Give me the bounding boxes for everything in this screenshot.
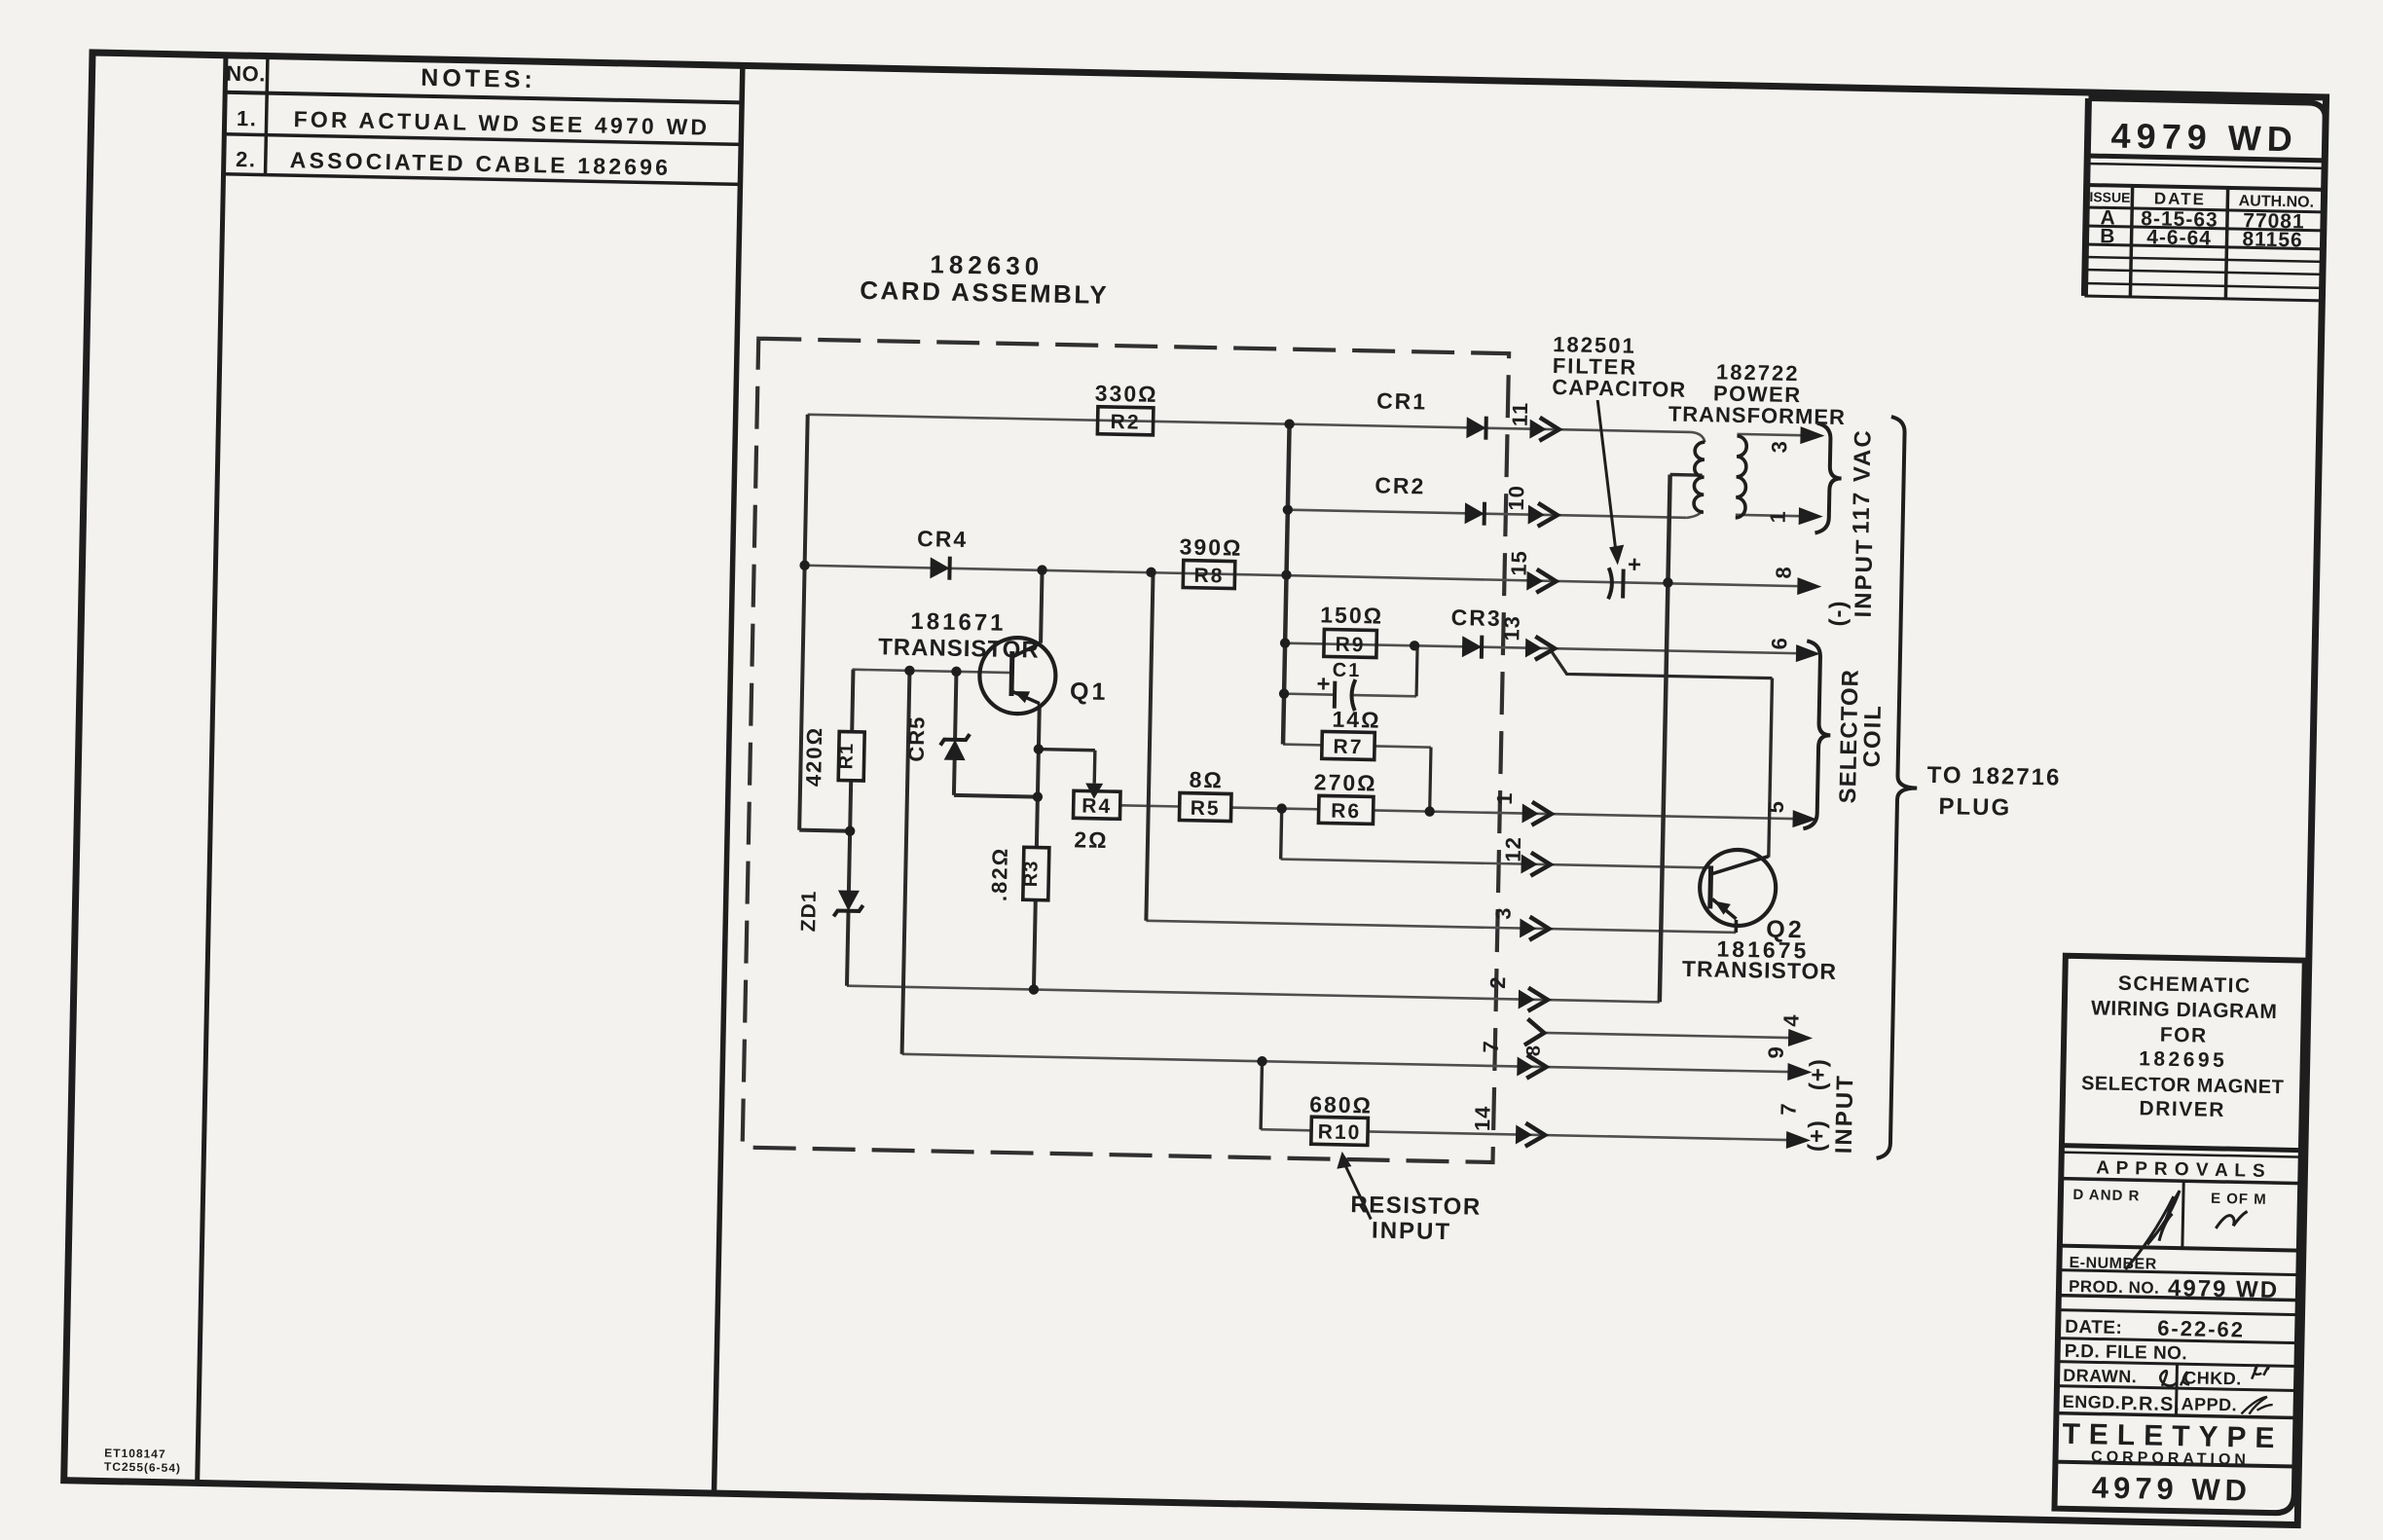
transistor Q1 181671: [979, 637, 1057, 715]
wire pin7 row to arrow9: [902, 1054, 1789, 1072]
svg-text:ENGD.: ENGD.: [2062, 1392, 2120, 1412]
svg-text:3: 3: [1767, 440, 1791, 454]
power transformer primary winding: [1694, 442, 1705, 512]
svg-text:14: 14: [1470, 1105, 1495, 1131]
card pin 1 chevron: [1521, 804, 1538, 824]
svg-text:4: 4: [1778, 1013, 1803, 1027]
svg-text:WIRING DIAGRAM: WIRING DIAGRAM: [2091, 997, 2278, 1023]
card pin 15 chevron: [1526, 571, 1543, 591]
plug arrow 8: [1797, 577, 1821, 595]
svg-text:15: 15: [1507, 550, 1532, 576]
wire D1 to pin2 row: [847, 911, 849, 986]
svg-text:R5: R5: [1191, 797, 1221, 821]
wire Q1 collector riser: [1041, 570, 1043, 643]
title block row lines: [2062, 1146, 2301, 1151]
wire pin11 row R2 CR1: [808, 415, 1692, 432]
svg-text:11: 11: [1508, 402, 1533, 427]
wire pin3 row to Q2 emitter: [1146, 921, 1736, 933]
svg-text:INPUT: INPUT: [1372, 1218, 1452, 1246]
wire minus rail vertical B: [1660, 475, 1670, 1003]
svg-text:2Ω: 2Ω: [1074, 826, 1109, 853]
svg-text:4979 WD: 4979 WD: [2110, 115, 2298, 159]
plug arrow 4: [1788, 1029, 1813, 1046]
svg-text:+: +: [1316, 671, 1332, 697]
wire base rail down to pin7 row: [902, 671, 910, 1054]
plug arrow 7: [1786, 1131, 1811, 1149]
svg-text:10: 10: [1504, 485, 1529, 511]
plug arrow 6: [1796, 644, 1820, 662]
svg-text:+: +: [1628, 552, 1643, 578]
wire R7 row: [1283, 743, 1322, 746]
svg-text:14Ω: 14Ω: [1332, 707, 1381, 733]
card pin 2 chevron: [1519, 989, 1535, 1008]
svg-text:D AND R: D AND R: [2072, 1187, 2140, 1204]
svg-text:(-): (-): [1825, 600, 1852, 627]
diode CR1: [1466, 417, 1485, 438]
svg-text:E-NUMBER: E-NUMBER: [2069, 1255, 2157, 1273]
svg-text:TRANSISTOR: TRANSISTOR: [1682, 956, 1838, 984]
wire Q1 base row: [852, 670, 1011, 673]
diode CR2: [1465, 502, 1485, 524]
svg-text:CR1: CR1: [1376, 387, 1428, 414]
wire pin14 row R10 to arrow7: [1261, 1129, 1311, 1130]
svg-text:12: 12: [1501, 836, 1526, 862]
diode CR3: [1462, 636, 1482, 657]
wire pin1 row R4 R5 R6 to arrow5: [1120, 805, 1180, 806]
wire vertical bus A: [1283, 424, 1290, 745]
svg-text:COIL: COIL: [1859, 704, 1887, 768]
svg-text:R4: R4: [1082, 794, 1112, 818]
resistor R6 270 ohm: [1318, 795, 1374, 824]
card pin 14 chevron: [1516, 1124, 1532, 1144]
svg-text:FOR ACTUAL WD SEE 4970 WD: FOR ACTUAL WD SEE 4970 WD: [293, 106, 710, 140]
resistor R8 390 ohm: [1183, 561, 1235, 589]
svg-text:DATE: DATE: [2154, 189, 2206, 208]
svg-text:DRIVER: DRIVER: [2139, 1097, 2225, 1121]
svg-text:5: 5: [1764, 800, 1788, 814]
svg-text:C1: C1: [1333, 660, 1362, 682]
svg-text:NO.: NO.: [226, 61, 266, 87]
svg-text:AUTH.NO.: AUTH.NO.: [2239, 193, 2315, 211]
capacitor C1: [1333, 681, 1338, 709]
wire R1 bottom lead to D1: [849, 781, 851, 892]
wire CR5 branch: [955, 672, 956, 741]
svg-text:(+): (+): [1804, 1119, 1831, 1153]
resistor R4 2 ohm: [1073, 790, 1120, 819]
svg-text:1.: 1.: [237, 106, 258, 130]
svg-text:CR5: CR5: [904, 715, 930, 762]
svg-text:4979 WD: 4979 WD: [2168, 1275, 2280, 1303]
wire pin12 row to Q2 base: [1281, 860, 1711, 868]
svg-text:81156: 81156: [2242, 228, 2303, 251]
card pin 11 chevron: [1529, 420, 1546, 439]
brace to plug: [1877, 417, 1925, 1159]
plug arrow 5: [1792, 810, 1816, 827]
svg-text:R7: R7: [1333, 736, 1363, 759]
svg-text:680Ω: 680Ω: [1309, 1091, 1373, 1118]
svg-text:181671: 181671: [910, 608, 1007, 637]
brace selector coil: [1803, 641, 1832, 828]
signature E of M: [2216, 1211, 2247, 1229]
svg-text:TC255(6-54): TC255(6-54): [104, 1460, 181, 1476]
svg-text:7: 7: [1777, 1102, 1801, 1116]
svg-text:330Ω: 330Ω: [1095, 381, 1158, 407]
svg-text:6: 6: [1767, 637, 1791, 650]
notes table lines: [225, 92, 742, 103]
wire R10 drop: [1261, 1061, 1262, 1129]
title block bottom-right: [2054, 956, 2304, 1514]
svg-text:13: 13: [1499, 615, 1524, 642]
svg-text:DATE:: DATE:: [2065, 1317, 2123, 1338]
resistor R3 .82 ohm vertical: [1023, 847, 1049, 900]
svg-text:B: B: [2100, 225, 2116, 247]
svg-text:SELECTOR MAGNET: SELECTOR MAGNET: [2081, 1073, 2285, 1098]
svg-text:CHKD.: CHKD.: [2183, 1368, 2242, 1388]
svg-text:R1: R1: [835, 743, 858, 770]
svg-text:R3: R3: [1020, 860, 1043, 887]
svg-text:Q1: Q1: [1070, 678, 1109, 706]
svg-text:PLUG: PLUG: [1938, 793, 2011, 821]
svg-text:CARD ASSEMBLY: CARD ASSEMBLY: [860, 275, 1109, 310]
pointer line resistor input: [1343, 1164, 1372, 1220]
signature D and R: [2125, 1190, 2180, 1270]
svg-text:CR3: CR3: [1450, 605, 1502, 631]
filter capacitor on pin15 row: [1608, 568, 1612, 599]
svg-text:PROD. NO.: PROD. NO.: [2069, 1277, 2160, 1298]
svg-text:TRANSISTOR: TRANSISTOR: [878, 634, 1040, 663]
wire R7 right riser: [1430, 748, 1431, 812]
svg-text:1: 1: [1766, 510, 1790, 524]
svg-text:R2: R2: [1110, 411, 1140, 434]
svg-text:ZD1: ZD1: [797, 890, 821, 932]
svg-text:INPUT: INPUT: [1831, 1074, 1859, 1155]
issue table lines: [2087, 156, 2325, 161]
zener diode D1: [838, 890, 860, 910]
svg-text:4-6-64: 4-6-64: [2146, 226, 2212, 249]
svg-text:3: 3: [1490, 906, 1515, 920]
plug arrow 3: [1800, 426, 1824, 444]
svg-text:6-22-62: 6-22-62: [2157, 1316, 2245, 1342]
svg-text:7: 7: [1479, 1040, 1503, 1053]
svg-text:9: 9: [1764, 1045, 1788, 1059]
svg-text:150Ω: 150Ω: [1320, 602, 1383, 628]
card pin 12 chevron: [1521, 855, 1537, 874]
frame vertical divider left strip: [198, 55, 226, 1484]
wire pin13 row R9 CR3 to coil pin6: [1286, 643, 1796, 653]
plug arrow 9: [1787, 1063, 1812, 1081]
card assembly dashed box: [743, 339, 1509, 1162]
card pin 3 chevron: [1520, 919, 1536, 938]
svg-text:(+): (+): [1805, 1058, 1832, 1091]
junction dots: [799, 560, 810, 570]
svg-text:2: 2: [1485, 975, 1510, 989]
resistor R5 8 ohm: [1179, 792, 1231, 821]
svg-text:182695: 182695: [2139, 1047, 2228, 1072]
wire R4 feed from emitter: [1039, 750, 1095, 751]
wire R8 left riser to pin3 row: [1146, 572, 1153, 921]
card pin 13 chevron: [1525, 639, 1542, 658]
svg-text:INPUT: INPUT: [1851, 537, 1879, 618]
resistor R1 420 ohm vertical: [838, 731, 864, 781]
svg-text:R10: R10: [1318, 1120, 1362, 1144]
svg-text:P.R.S.: P.R.S.: [2120, 1393, 2181, 1415]
wire C1 right riser: [1416, 645, 1417, 696]
svg-text:8: 8: [1523, 1044, 1545, 1056]
wire R1 top lead: [852, 670, 853, 732]
svg-text:8: 8: [1772, 566, 1796, 579]
svg-text:CR2: CR2: [1375, 472, 1426, 498]
svg-text:ET108147: ET108147: [104, 1447, 166, 1461]
svg-text:P.D. FILE NO.: P.D. FILE NO.: [2065, 1341, 2188, 1365]
wire Q1 emitter fall R3: [1037, 704, 1040, 848]
wire coil return vertical: [1769, 678, 1773, 858]
svg-text:4979 WD: 4979 WD: [2091, 1470, 2252, 1507]
svg-text:CR4: CR4: [917, 526, 969, 552]
wire transformer secondary leads: [1738, 434, 1802, 435]
transistor Q2 181675: [1699, 849, 1777, 927]
svg-text:8Ω: 8Ω: [1189, 767, 1224, 793]
svg-text:E OF M: E OF M: [2211, 1191, 2267, 1208]
diode CR4: [930, 557, 949, 578]
svg-text:.82Ω: .82Ω: [987, 846, 1012, 901]
brace 117 VAC: [1815, 423, 1842, 533]
svg-text:R8: R8: [1193, 565, 1224, 588]
svg-text:270Ω: 270Ω: [1314, 769, 1377, 795]
card pin 10 chevron: [1528, 505, 1545, 525]
wire jog from pin13 to coil return: [1551, 650, 1773, 678]
svg-text:R9: R9: [1335, 634, 1365, 657]
svg-text:1: 1: [1492, 791, 1517, 805]
resistor R7 14 ohm: [1322, 731, 1375, 759]
wire transformer center tap: [1670, 473, 1703, 477]
power transformer secondary winding: [1736, 436, 1747, 518]
svg-text:420Ω: 420Ω: [801, 726, 826, 788]
wire pin15 row CR4 R8 filter-cap: [805, 566, 1798, 586]
svg-text:DRAWN.: DRAWN.: [2063, 1366, 2137, 1387]
wire left rail: [799, 415, 808, 830]
wire pin10 row CR2: [1289, 510, 1687, 518]
svg-text:117 VAC: 117 VAC: [1848, 428, 1876, 534]
zener diode CR5: [944, 740, 966, 760]
svg-text:SCHEMATIC: SCHEMATIC: [2118, 972, 2252, 998]
svg-text:CAPACITOR: CAPACITOR: [1552, 375, 1686, 402]
svg-text:APPD.: APPD.: [2181, 1394, 2237, 1414]
svg-text:2.: 2.: [236, 147, 257, 171]
wire pin2 row: [847, 986, 1660, 1003]
svg-text:390Ω: 390Ω: [1179, 533, 1242, 560]
svg-text:A P P R O V A L S: A P P R O V A L S: [2096, 1157, 2266, 1181]
svg-text:TO 182716: TO 182716: [1926, 762, 2061, 791]
svg-text:NOTES:: NOTES:: [421, 64, 536, 93]
frame vertical divider notes/schematic: [715, 65, 743, 1493]
wire pin8 row to arrow4: [1542, 1033, 1789, 1038]
title box top-right: [2084, 98, 2326, 301]
svg-text:CORPORATION: CORPORATION: [2091, 1448, 2250, 1468]
wire pin1 to pin12 drop: [1281, 809, 1282, 860]
wire C1 row: [1285, 694, 1335, 695]
resistor R2 330 ohm: [1097, 407, 1154, 435]
pointer line filter capacitor: [1595, 400, 1619, 552]
svg-text:FOR: FOR: [2160, 1024, 2208, 1047]
svg-text:ISSUE: ISSUE: [2089, 189, 2130, 205]
card pin 7 chevron: [1517, 1056, 1533, 1076]
resistor R10 680 ohm: [1311, 1117, 1369, 1145]
resistor R9 150 ohm: [1324, 629, 1377, 657]
svg-text:R6: R6: [1331, 800, 1361, 824]
plug arrow 1: [1799, 507, 1823, 525]
card pin 8 Y mark: [1524, 1019, 1545, 1045]
